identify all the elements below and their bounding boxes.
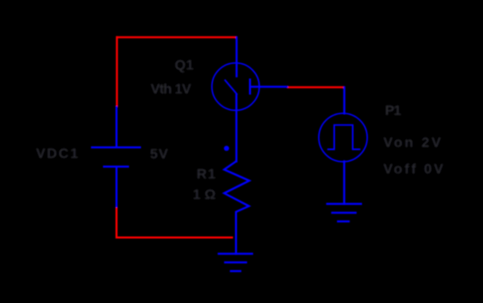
- svg-text:5V: 5V: [150, 146, 169, 162]
- label VDC1: [36, 145, 80, 161]
- value 5V: [150, 146, 169, 162]
- wire left vertical upper: [116, 36, 118, 107]
- ground middle: [218, 254, 253, 271]
- label P1: [385, 102, 402, 118]
- value 1ohm: [193, 186, 216, 202]
- svg-text:Vth 1V: Vth 1V: [151, 80, 192, 96]
- pulse source P1: [319, 86, 367, 205]
- wire top horizontal: [116, 36, 237, 38]
- value Voff 0V: [383, 161, 445, 177]
- svg-text:Von 2V: Von 2V: [383, 134, 443, 150]
- battery VDC1: [91, 106, 141, 208]
- resistor R1: [224, 160, 249, 254]
- svg-text:1 Ω: 1 Ω: [193, 186, 216, 202]
- svg-text:VDC1: VDC1: [36, 145, 80, 161]
- wire gate to pulse source: [287, 86, 344, 88]
- svg-text:P1: P1: [385, 102, 402, 118]
- label Q1: [175, 57, 194, 73]
- label R1: [197, 165, 217, 181]
- value Vth 1V: [151, 80, 192, 96]
- ground right: [326, 204, 362, 222]
- wire left vertical lower: [116, 207, 118, 239]
- switch Q1: [212, 36, 288, 162]
- svg-text:R1: R1: [197, 165, 217, 181]
- svg-text:Voff 0V: Voff 0V: [383, 161, 445, 177]
- svg-text:Q1: Q1: [175, 57, 194, 73]
- node junction dot: [224, 146, 229, 151]
- value Von 2V: [383, 134, 443, 150]
- wire bottom horizontal: [116, 237, 234, 239]
